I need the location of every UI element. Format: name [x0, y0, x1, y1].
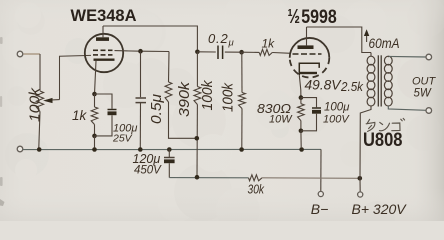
- svg-text:WE348A: WE348A: [71, 6, 137, 25]
- svg-text:25V: 25V: [112, 133, 133, 145]
- svg-text:60mA: 60mA: [369, 36, 400, 51]
- svg-text:49.8V: 49.8V: [305, 78, 343, 93]
- svg-text:100k: 100k: [220, 82, 237, 112]
- svg-text:B+ 320V: B+ 320V: [352, 201, 408, 217]
- svg-text:B−: B−: [311, 201, 329, 217]
- svg-text:100V: 100V: [323, 114, 350, 126]
- svg-text:OUT: OUT: [412, 76, 437, 88]
- svg-text:5W: 5W: [414, 88, 432, 100]
- svg-text:100k: 100k: [199, 79, 216, 110]
- svg-text:100μ: 100μ: [324, 102, 350, 114]
- svg-text:30k: 30k: [248, 183, 265, 197]
- svg-text:10W: 10W: [269, 114, 293, 126]
- svg-text:390k: 390k: [176, 80, 193, 117]
- svg-text:5998: 5998: [301, 6, 337, 28]
- svg-text:U808: U808: [363, 130, 403, 151]
- svg-text:100k: 100k: [27, 86, 44, 122]
- svg-text:450V: 450V: [134, 165, 162, 177]
- svg-text:1k: 1k: [262, 37, 276, 51]
- svg-text:½: ½: [288, 6, 301, 28]
- svg-text:0.5μ: 0.5μ: [148, 94, 165, 124]
- svg-text:1k: 1k: [72, 108, 88, 123]
- svg-text:2.5k: 2.5k: [340, 80, 364, 94]
